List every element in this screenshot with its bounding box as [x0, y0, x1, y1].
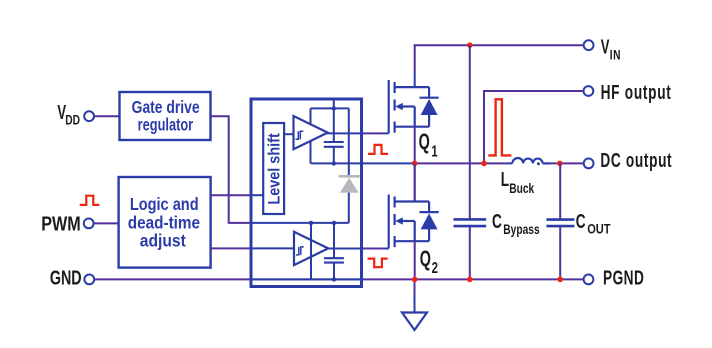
- wire logic to lower driver (inside IC): [251, 247, 294, 249]
- terminal PWM: [84, 219, 94, 229]
- node lower VDD rail: [251, 222, 349, 224]
- wire upper driver supply vertical: [310, 108, 312, 163]
- node HF junction: [481, 161, 487, 167]
- node C_Bypass/PGND junction: [467, 277, 473, 283]
- pulse PWM red pulse: [80, 196, 100, 205]
- box Logic and dead-time adjust: [119, 177, 211, 268]
- terminal DC output: [584, 159, 594, 169]
- terminal GND: [84, 275, 94, 285]
- svg-text:L: L: [501, 167, 510, 191]
- node Q2 source / ground junction: [412, 277, 418, 283]
- transistor Q1: [389, 80, 429, 133]
- svg-text:Buck: Buck: [509, 180, 534, 196]
- op-amp lower gate driver: [294, 232, 328, 265]
- svg-text:HF output: HF output: [601, 80, 672, 104]
- node junction dots upper: [332, 106, 336, 110]
- wire HF drop: [483, 90, 485, 163]
- diode body Q1: [420, 87, 439, 127]
- capacitor bootstrap (upper): [333, 99, 335, 142]
- wire gate Q2: [326, 248, 363, 250]
- wire GND / PGND rail: [94, 278, 584, 280]
- svg-text:Bypass: Bypass: [503, 221, 539, 237]
- capacitor lower driver: [333, 223, 335, 258]
- wire HF output: [483, 90, 584, 92]
- wire inductor to DC output: [551, 162, 584, 164]
- wire Q1 drain to VIN rail: [414, 44, 416, 72]
- inductor L_Buck: [512, 158, 551, 163]
- svg-text:IN: IN: [610, 47, 621, 63]
- capacitor C_OUT: [559, 163, 561, 219]
- terminal PGND: [584, 275, 594, 285]
- svg-text:Q: Q: [419, 129, 430, 154]
- svg-text:2: 2: [432, 259, 439, 276]
- svg-text:1: 1: [431, 143, 438, 160]
- ground: [402, 313, 427, 331]
- wire upper driver output to Q1 gate: [326, 132, 363, 134]
- wire level shift to upper driver: [284, 133, 293, 135]
- diode bootstrap (grey): [348, 108, 350, 175]
- svg-text:OUT: OUT: [587, 220, 611, 237]
- svg-text:Level shift: Level shift: [266, 133, 284, 204]
- wire logic to level shift: [211, 194, 251, 196]
- svg-text:DD: DD: [65, 112, 80, 128]
- transistor Q2: [389, 195, 429, 249]
- terminal V_DD: [84, 111, 94, 121]
- svg-text:PWM: PWM: [41, 211, 80, 234]
- capacitor C_Bypass: [469, 45, 471, 219]
- diode body Q2: [420, 202, 439, 242]
- label V_DD: [57, 100, 80, 128]
- pulse Q1 gate red pulse: [368, 145, 388, 154]
- node DC/C_OUT junction: [557, 161, 563, 167]
- pulse Q2 gate red pulse (inverted): [368, 259, 388, 268]
- svg-text:Q: Q: [420, 246, 431, 271]
- wire lower driver supply vertical: [310, 223, 312, 280]
- svg-text:Gate drive: Gate drive: [132, 98, 200, 117]
- node junction dots lower: [309, 221, 313, 225]
- pulse HF tall red pulse: [488, 99, 511, 155]
- ground rail inside IC: [251, 278, 362, 280]
- box Gate drive regulator: [120, 92, 211, 140]
- terminal V_IN: [584, 40, 594, 50]
- wire logic to low-side driver: [211, 247, 252, 249]
- IC driver box: [251, 99, 362, 287]
- svg-text:regulator: regulator: [138, 116, 194, 136]
- svg-text:GND: GND: [50, 266, 82, 289]
- op-amp upper gate driver: [294, 116, 328, 149]
- terminal HF output: [584, 86, 594, 96]
- node C_OUT/PGND junction: [557, 277, 563, 283]
- wire PWM input: [94, 222, 119, 224]
- wire regulator output to IC VDD rail: [211, 116, 252, 223]
- wire V_DD input: [94, 115, 120, 117]
- svg-text:C: C: [576, 209, 586, 233]
- node flying rail (bootstrap top): [311, 107, 349, 109]
- wire switch node vertical Q1 source to Q2 drain: [414, 127, 416, 201]
- node VIN/C_Bypass junction: [467, 42, 473, 48]
- svg-text:adjust: adjust: [140, 231, 186, 251]
- wire switch rail to DC output: [415, 162, 505, 164]
- wire to ground symbol: [414, 279, 416, 295]
- wire VIN rail: [414, 44, 584, 46]
- svg-text:DC output: DC output: [600, 148, 672, 172]
- svg-text:Logic and: Logic and: [130, 194, 199, 214]
- node upper driver bottom rail (switch ref): [311, 162, 415, 164]
- svg-text:V: V: [601, 34, 610, 58]
- wire Q2 source to PGND rail: [414, 241, 416, 279]
- svg-text:C: C: [492, 209, 502, 233]
- svg-text:PGND: PGND: [603, 266, 644, 290]
- box Level shift: [263, 123, 284, 214]
- wire Q2 drain to switch node: [414, 163, 416, 201]
- node switch junction: [412, 161, 418, 167]
